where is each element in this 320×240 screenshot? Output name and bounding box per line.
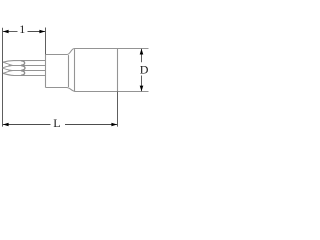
- joint line V1 (collar/body): [68, 55, 70, 87]
- flute 3 upper tip curve: [3, 71, 13, 74]
- bit top edge line with pointed flute tip: [3, 61, 46, 63]
- dimension line D: [141, 49, 143, 63]
- arrowhead D top: [140, 49, 144, 55]
- extension line left (x=2): [2, 28, 4, 127]
- body right edge: [117, 49, 119, 92]
- collar bottom line with S-curve to body bottom: [46, 88, 77, 92]
- bit flute line 3: [9, 70, 46, 72]
- dimension line l: [3, 31, 18, 33]
- joint line V2 (body left edge): [74, 49, 76, 91]
- dimension line L: [3, 124, 51, 126]
- arrowhead L left: [3, 123, 9, 127]
- L right extension line (below body): [117, 92, 119, 127]
- arrowhead L right: [111, 123, 117, 127]
- flute 2 lower tip curve: [2, 68, 11, 70]
- svg-text:L: L: [53, 116, 60, 130]
- body bottom line continuing as D bottom extension line: [75, 91, 149, 93]
- bit flute line 2: [9, 65, 46, 67]
- extension line right of l dimension (collar face extension): [45, 28, 47, 55]
- flute 1 lower tip curve: [3, 62, 13, 65]
- arrowhead l right: [39, 30, 45, 34]
- flute 2 end cap: [21, 66, 25, 71]
- flute 2 upper tip curve: [2, 66, 11, 68]
- collar top line with S-curve to body top: [46, 49, 75, 55]
- collar front face: [45, 55, 47, 88]
- body top line continuing as D top extension line: [75, 48, 149, 50]
- svg-text:1: 1: [19, 22, 25, 36]
- arrowhead D bottom: [140, 86, 144, 92]
- flute 3 end cap: [21, 71, 25, 76]
- svg-text:D: D: [140, 63, 149, 77]
- flute 1 end cap: [21, 61, 25, 66]
- arrowhead l left: [3, 30, 9, 34]
- bit bottom edge line with pointed flute tip: [3, 73, 46, 75]
